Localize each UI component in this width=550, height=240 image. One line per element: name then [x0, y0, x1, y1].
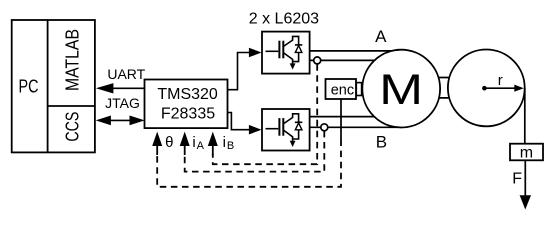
force line: [524, 160, 526, 196]
pulley circle: [448, 50, 525, 127]
svg-text:r: r: [498, 72, 503, 89]
rope from pulley to mass: [524, 88, 526, 144]
svg-text:m: m: [520, 145, 533, 162]
svg-text:i: i: [223, 134, 226, 151]
current sensor circle phase A: [314, 57, 321, 64]
i_B arrow into TMS: [208, 132, 218, 146]
force arrow head: [520, 195, 531, 209]
svg-text:θ: θ: [165, 134, 173, 151]
JTAG wire: [109, 119, 132, 121]
current sensor circle phase B: [321, 124, 328, 131]
JTAG arrow head right: [130, 116, 145, 126]
svg-text:i: i: [192, 134, 195, 151]
svg-text:F: F: [512, 171, 522, 188]
svg-text:enc: enc: [331, 83, 354, 99]
svg-text:2 x L6203: 2 x L6203: [249, 11, 319, 28]
TMS320 box: [145, 80, 228, 129]
svg-text:PC: PC: [19, 76, 39, 96]
PC inner vertical divider: [47, 20, 49, 152]
driver box bottom (L6203): [262, 109, 310, 151]
motor M circle: [362, 50, 440, 128]
svg-text:A: A: [197, 140, 205, 152]
UART wire: [113, 87, 145, 89]
svg-text:TMS320: TMS320: [157, 86, 218, 103]
pulley center dot: [482, 86, 487, 91]
wire TMS to bottom driver: [228, 113, 250, 130]
svg-text:F28335: F28335: [161, 105, 215, 122]
PC outer box: [12, 20, 95, 152]
svg-text:JTAG: JTAG: [105, 95, 140, 111]
svg-text:B: B: [376, 133, 387, 152]
mass box m: [510, 144, 543, 161]
svg-text:MATLAB: MATLAB: [62, 29, 82, 91]
dashed feedback net i_A (from phase-B current sensor to i_A arrow): [185, 131, 325, 172]
radius arrow head: [514, 85, 524, 92]
theta arrow into TMS: [152, 132, 162, 146]
svg-text:UART: UART: [107, 66, 145, 82]
wire phase B upper: [310, 116, 376, 118]
encoder signal wire (solid part below enc box): [340, 99, 342, 140]
encoder box: [326, 79, 357, 99]
wire phase A upper: [310, 50, 394, 52]
wire phase A lower: [310, 59, 377, 61]
arrow head into top driver: [249, 48, 262, 58]
svg-text:A: A: [375, 27, 387, 46]
JTAG arrow head left: [96, 116, 111, 126]
svg-text:M: M: [379, 66, 423, 114]
MATLAB/CCS divider: [48, 105, 95, 107]
shaft coupling lines motor-pulley: [433, 77, 455, 79]
driver box top (L6203): [262, 32, 310, 74]
IGBT symbol top driver: [266, 36, 303, 69]
radius arrow shaft: [484, 87, 515, 89]
i_A arrow into TMS: [180, 132, 190, 146]
encoder mount rect: [356, 83, 361, 96]
IGBT symbol bottom driver: [266, 114, 303, 147]
svg-text:CCS: CCS: [62, 112, 82, 142]
UART arrow head: [96, 83, 114, 93]
dashed feedback net theta (from enc to theta arrow): [157, 140, 341, 187]
wire TMS to top driver: [228, 53, 250, 90]
wire phase B lower: [310, 126, 397, 128]
dashed feedback net i_B (from phase-A current sensor to i_B arrow): [213, 64, 317, 164]
arrow head into bottom driver: [249, 125, 262, 135]
svg-text:B: B: [227, 140, 234, 152]
